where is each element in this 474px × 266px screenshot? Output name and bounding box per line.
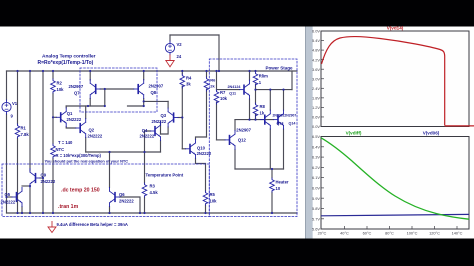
svg-text:Heater: Heater [276, 180, 289, 185]
svg-text:Q9: Q9 [41, 173, 47, 178]
pane 1 y-axis labels [312, 29, 320, 130]
svg-text:6.0V: 6.0V [312, 186, 320, 191]
wire R3 bottom [144, 197, 146, 213]
wire Rlim bottom [255, 84, 257, 90]
wire R8 bottom [255, 114, 257, 119]
wire R1 bottom [17, 138, 19, 213]
wire Q1 emitter to Q2 base [66, 127, 76, 128]
svg-text:Q6: Q6 [119, 192, 125, 197]
svg-text:6.1V: 6.1V [312, 175, 320, 180]
wire Q14 emitter [283, 129, 285, 169]
resistor R6 [204, 77, 209, 91]
svg-text:2N2222: 2N2222 [152, 119, 167, 124]
svg-text:V(vdiff): V(vdiff) [346, 131, 362, 136]
wire Q1 base tap [53, 116, 56, 118]
wire node Q4 collector spur [128, 105, 144, 107]
svg-text:10: 10 [276, 186, 281, 191]
wire temperature point column [144, 152, 146, 183]
wire Q3 base tap [178, 117, 182, 119]
resistor R1 [15, 124, 20, 138]
letterbox bottom bar [0, 239, 474, 266]
svg-text:2N2907: 2N2907 [149, 84, 164, 89]
svg-text:R4: R4 [186, 76, 192, 81]
wire R4 top [181, 71, 183, 74]
transistor Q6 [110, 188, 120, 207]
wire Q1 collector [65, 106, 67, 108]
wire Q12 base [217, 139, 226, 141]
trace V(vdiff) green decay curve [321, 138, 469, 219]
svg-text:0.6V: 0.6V [312, 115, 320, 120]
wire R6 top [206, 71, 208, 77]
pane 2 y ticks [321, 147, 324, 219]
resistor R2 [51, 79, 56, 93]
svg-text:2N2222: 2N2222 [88, 133, 103, 138]
pane 2 x ticks [345, 226, 458, 229]
wire Q10 collector [196, 137, 207, 139]
wire Q9 base [40, 177, 43, 179]
svg-text:4.2V: 4.2V [312, 57, 320, 62]
wire mid column [42, 71, 44, 213]
wire Q13 emitter [269, 129, 271, 169]
transistor Q12 [225, 130, 235, 149]
trace bottom segment [445, 125, 474, 127]
svg-text:R = 10k*exp(300/Temp): R = 10k*exp(300/Temp) [56, 153, 102, 158]
svg-text:6.2V: 6.2V [312, 165, 320, 170]
svg-text:10k: 10k [210, 199, 218, 204]
resistor R7 [214, 90, 219, 104]
wire R5 bottom [205, 205, 207, 213]
svg-text:2N2222: 2N2222 [1, 200, 16, 205]
voltage source V2 [165, 41, 174, 55]
svg-text:9.4uA difference Beta helper =: 9.4uA difference Beta helper = 39nA [57, 222, 128, 227]
wire Q4 collector [160, 122, 162, 135]
transistor Q3 [168, 108, 178, 127]
trace V(vd14) red curve [322, 37, 445, 126]
svg-text:6.4V: 6.4V [312, 144, 320, 149]
resistor R3 [142, 183, 147, 197]
wire Q4 base link [145, 131, 151, 152]
wire Q13 collector [269, 90, 271, 111]
pane 1 y ticks [321, 41, 324, 117]
wire Q11 collector [249, 71, 251, 80]
wire heater bottom [271, 192, 273, 213]
svg-text:2N2222: 2N2222 [67, 117, 82, 122]
plot pane 1 frame [321, 31, 469, 127]
dashed selection box power stage [209, 59, 297, 217]
wire Q8 collector [143, 99, 145, 106]
svg-text:2N2222: 2N2222 [41, 179, 56, 184]
transistor Q10 [186, 139, 196, 158]
wire heater top [271, 169, 273, 178]
wire Q6 collector column [109, 152, 111, 188]
wire node heater bus [235, 168, 284, 170]
dashed selection box lower-left [2, 164, 209, 217]
wire bottom ground rail [7, 212, 298, 214]
svg-text:V(vd14): V(vd14) [387, 26, 404, 31]
svg-text:Q11: Q11 [229, 91, 236, 95]
svg-text:4.5k: 4.5k [150, 190, 159, 195]
wire R7 column [216, 102, 218, 140]
svg-text:6.0V: 6.0V [312, 29, 320, 34]
svg-text:R3: R3 [150, 184, 156, 189]
svg-text:R6: R6 [210, 78, 216, 83]
svg-text:Q4: Q4 [142, 128, 148, 133]
svg-text:2N2907: 2N2907 [69, 84, 84, 89]
wire node Q8 collector bus [144, 100, 168, 102]
svg-text:2N4124: 2N4124 [228, 85, 242, 89]
trace V(vd06) blue flat line [321, 214, 469, 215]
transistor Q13 [260, 110, 270, 129]
wire node collector bus [66, 105, 105, 107]
wire V2 feed [170, 34, 219, 36]
wire V1 bottom [6, 114, 8, 213]
svg-text:Q5: Q5 [5, 192, 11, 197]
wire Q9 collector column [29, 71, 31, 171]
svg-text:1.8V: 1.8V [312, 96, 320, 101]
wire R7 top [216, 71, 218, 90]
transistor Q5 [12, 188, 22, 207]
wire R6 column [206, 89, 208, 137]
wire V1 top [6, 71, 8, 100]
svg-text:R=Ro*exp(1/Temp-1/To): R=Ro*exp(1/Temp-1/To) [38, 60, 94, 66]
svg-text:R7: R7 [220, 90, 226, 95]
svg-text:6.5V: 6.5V [312, 134, 320, 139]
svg-text:4.8V: 4.8V [312, 48, 320, 53]
svg-text:.tran 1m: .tran 1m [58, 204, 79, 210]
wire Q12 emitter [234, 149, 236, 169]
svg-text:2N2222: 2N2222 [140, 134, 155, 139]
wire Rlim sense link [256, 89, 293, 91]
svg-text:Q12: Q12 [238, 137, 247, 142]
svg-text:Analog Temp controller: Analog Temp controller [42, 54, 96, 60]
wire Q11 base [217, 89, 240, 91]
wire Q6 emitter [109, 207, 111, 214]
transistor Q8 [134, 80, 144, 99]
svg-text:80°C: 80°C [385, 231, 394, 236]
svg-text:V1: V1 [12, 101, 18, 106]
wire Q2 emitter [85, 138, 87, 153]
wire Q5 base [7, 196, 13, 198]
wire R1 top [17, 71, 19, 124]
resistor R5 [203, 191, 208, 205]
wire R8 top [255, 90, 257, 104]
plot pane 2 frame [321, 137, 469, 230]
svg-text:60°C: 60°C [363, 231, 372, 236]
wire V2 drop [218, 35, 220, 71]
wire R2 top [52, 71, 54, 79]
svg-text:5.8V: 5.8V [312, 206, 320, 211]
wire Q3 collector [167, 101, 169, 108]
wire sense drop right [291, 71, 293, 90]
transistor Q14 [274, 110, 284, 129]
resistor Rlim [253, 72, 258, 86]
svg-text:10k: 10k [57, 87, 65, 92]
svg-text:3k: 3k [186, 82, 191, 87]
svg-text:0.0V: 0.0V [312, 124, 320, 129]
wire Q6 base [120, 197, 141, 213]
svg-text:3.0V: 3.0V [312, 76, 320, 81]
wire Q10 base [182, 148, 185, 150]
svg-text:2N2907: 2N2907 [236, 128, 251, 133]
svg-text:You should put the real equati: You should put the real equation of your… [45, 159, 129, 164]
svg-text:Q8: Q8 [151, 90, 157, 95]
wire node output base bus [235, 119, 274, 121]
resistor NTC [51, 144, 56, 158]
svg-text:R8: R8 [260, 104, 266, 109]
resistor Heater [270, 178, 275, 192]
wire R2 to NTC [52, 93, 54, 144]
svg-text:2k: 2k [210, 84, 215, 89]
wire Q3 emitter fold [161, 127, 169, 134]
wire top supply rail [7, 70, 298, 72]
svg-text:20°C: 20°C [318, 231, 327, 236]
svg-text:10k: 10k [220, 96, 228, 101]
svg-text:3.6V: 3.6V [312, 67, 320, 72]
svg-text:Temperature Point: Temperature Point [146, 173, 184, 178]
transistor Q2 [76, 119, 86, 138]
transistor Q1 [56, 108, 66, 127]
svg-text:Q7: Q7 [74, 91, 80, 96]
wire node mirror base bus [100, 88, 134, 90]
voltage source V1 [2, 100, 11, 114]
svg-text:7.8k: 7.8k [21, 132, 30, 137]
svg-text:Q3: Q3 [161, 113, 167, 118]
ground under V2 [166, 55, 174, 67]
svg-text:2N29022N2907: 2N29022N2907 [273, 114, 297, 118]
pane 2 x-axis labels [318, 231, 463, 236]
svg-text:120°C: 120°C [429, 231, 440, 236]
svg-text:V2: V2 [177, 42, 183, 47]
svg-text:R1: R1 [21, 126, 27, 131]
svg-text:NTC: NTC [56, 147, 65, 152]
svg-text:T = 140: T = 140 [58, 140, 73, 145]
wire NTC bottom [52, 158, 54, 213]
resistor R8 [253, 103, 258, 117]
svg-text:140°C: 140°C [452, 231, 463, 236]
svg-text:24: 24 [177, 54, 182, 59]
svg-text:Q13: Q13 [277, 122, 284, 126]
svg-text:5.7V: 5.7V [312, 216, 320, 221]
svg-text:Q10: Q10 [197, 145, 206, 150]
svg-text:Q2: Q2 [89, 128, 95, 133]
window left border strip [305, 27, 313, 239]
svg-text:6.3V: 6.3V [312, 155, 320, 160]
svg-text:Rlim: Rlim [259, 74, 268, 79]
wire Q14 collector [283, 90, 285, 111]
svg-text:100°C: 100°C [407, 231, 418, 236]
svg-text:40°C: 40°C [340, 231, 349, 236]
wire Q11 emitter [249, 99, 251, 120]
svg-text:5.9V: 5.9V [312, 196, 320, 201]
wire V2 stub [169, 35, 171, 41]
transistor Q7 [90, 80, 100, 99]
wire node diode link [104, 89, 106, 106]
svg-text:Power Stage: Power Stage [266, 66, 294, 71]
svg-text:V(vd06): V(vd06) [423, 131, 440, 136]
svg-text:R2: R2 [57, 81, 63, 86]
wire R4 column [181, 86, 183, 149]
svg-text:1.2V: 1.2V [312, 105, 320, 110]
resistor R4 [180, 74, 185, 88]
svg-text:5.4V: 5.4V [312, 38, 320, 43]
svg-text:.dc temp 20 150: .dc temp 20 150 [61, 188, 100, 194]
svg-text:Q14: Q14 [289, 122, 297, 126]
wire Q12 collector [234, 120, 236, 131]
wire node tail bus [86, 151, 161, 153]
wire Q10 emitter to R5 [196, 158, 206, 191]
svg-text:2.4V: 2.4V [312, 86, 320, 91]
wire Q4 emitter [160, 141, 162, 153]
transistor Q4 [151, 122, 161, 141]
transistor Q9 [30, 169, 40, 188]
letterbox top bar [0, 0, 474, 27]
svg-text:2N2222: 2N2222 [119, 199, 134, 204]
wire Q5 collector link [22, 185, 30, 187]
marker red arrow bottom [48, 222, 56, 233]
svg-text:R5: R5 [210, 192, 216, 197]
wire Q7 collector [89, 99, 91, 107]
dashed selection box mirror pair [80, 68, 157, 112]
wire Q7 emitter [89, 71, 91, 80]
svg-text:Q1: Q1 [67, 111, 73, 116]
pane 2 y-axis labels [312, 134, 320, 232]
wire Q5 emitter [21, 207, 23, 214]
wire Q9 emitter [29, 186, 31, 213]
transistor Q11 [240, 80, 250, 99]
wire Q8 emitter [143, 71, 145, 80]
wire Q2 collector [85, 106, 87, 119]
